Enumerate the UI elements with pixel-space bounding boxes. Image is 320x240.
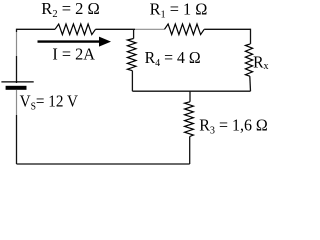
resistor R4 zigzag	[127, 39, 136, 71]
resistor R2 zigzag	[55, 24, 96, 35]
wire: battery bottom vertical (gray segment)	[16, 90, 18, 115]
current arrow I = 2A	[38, 40, 101, 42]
wire: R2 to node A	[96, 28, 136, 30]
svg-text:R4 = 4 Ω: R4 = 4 Ω	[145, 50, 201, 69]
battery VS negative plate (short thick)	[6, 86, 27, 90]
wire: Rx bottom lead	[249, 76, 252, 91]
wire: R3 bottom lead to bottom rail	[189, 137, 191, 165]
battery VS positive plate (long thin)	[1, 81, 33, 83]
svg-text:R1 = 1 Ω: R1 = 1 Ω	[150, 0, 208, 20]
wire: node A to R1 (gray segment)	[135, 28, 165, 30]
wire: R1 to top-right corner	[204, 28, 250, 30]
wire: R3 top lead from middle rail	[189, 91, 191, 102]
wire: R4 bottom lead	[131, 71, 133, 92]
wire: bottom rail	[17, 163, 190, 165]
svg-text:I = 2A: I = 2A	[52, 45, 95, 64]
resistor R3 zigzag	[185, 102, 194, 137]
svg-text:R2 = 2 Ω: R2 = 2 Ω	[41, 0, 99, 20]
wire: left vertical to battery top	[16, 56, 18, 83]
wire: top rail, battery top to R2	[17, 28, 56, 30]
svg-text:Rx: Rx	[253, 54, 268, 72]
svg-text:VS= 12 V: VS= 12 V	[20, 93, 79, 113]
resistor R1 zigzag	[165, 24, 205, 35]
wire: middle rail	[132, 90, 250, 92]
wire: left vertical (gray segment)	[16, 32, 18, 56]
wire: left vertical upper corner	[16, 29, 18, 32]
resistor Rx zigzag	[245, 44, 252, 76]
svg-text:R3 = 1,6 Ω: R3 = 1,6 Ω	[199, 116, 268, 136]
wire: R4 top lead from node A	[133, 29, 135, 38]
wire: right vertical, top corner to Rx	[250, 29, 252, 44]
wire: left vertical lower to bottom rail	[16, 115, 18, 164]
